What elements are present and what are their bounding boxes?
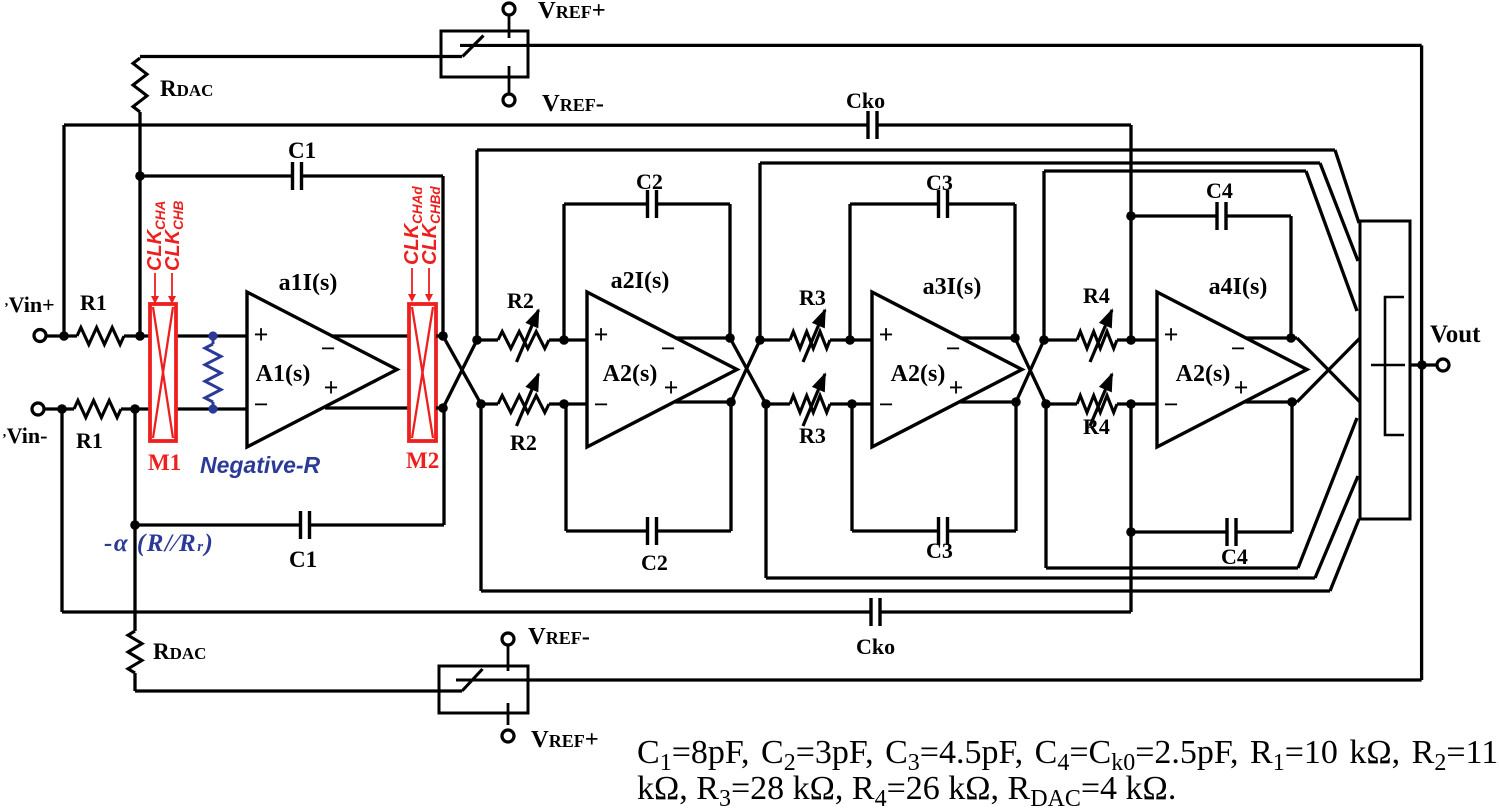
svg-text:’Vin+: ’Vin+ [4, 292, 55, 317]
svg-text:C1: C1 [289, 547, 317, 572]
svg-text:’Vin-: ’Vin- [2, 423, 47, 448]
svg-text:R3: R3 [799, 423, 826, 448]
svg-text:A2(s): A2(s) [603, 361, 658, 387]
svg-text:C3: C3 [926, 538, 953, 563]
svg-text:R3: R3 [799, 285, 826, 310]
svg-text:C3: C3 [926, 170, 953, 195]
svg-text:R2: R2 [507, 288, 534, 313]
svg-text:Cko: Cko [846, 88, 885, 113]
svg-text:C2: C2 [636, 169, 663, 194]
svg-text:C1: C1 [288, 138, 316, 163]
svg-text:a4I(s): a4I(s) [1209, 274, 1268, 300]
svg-text:+: + [949, 373, 964, 402]
svg-text:Vout: Vout [1430, 321, 1481, 348]
svg-text:+: + [324, 373, 339, 402]
svg-text:+: + [1164, 320, 1179, 349]
svg-text:A2(s): A2(s) [1176, 361, 1231, 387]
svg-text:a3I(s): a3I(s) [923, 274, 982, 300]
svg-text:−: − [946, 334, 961, 363]
svg-text:+: + [664, 373, 679, 402]
svg-text:C4: C4 [1206, 178, 1233, 203]
svg-text:VREF-: VREF- [542, 90, 604, 117]
svg-text:+: + [1234, 373, 1249, 402]
svg-text:C4: C4 [1221, 544, 1248, 569]
svg-text:−: − [594, 390, 609, 419]
svg-text:R4: R4 [1083, 414, 1110, 439]
svg-text:+: + [254, 320, 269, 349]
svg-text:−: − [1164, 390, 1179, 419]
svg-text:C2: C2 [641, 550, 668, 575]
svg-text:R2: R2 [510, 430, 537, 455]
svg-text:a1I(s): a1I(s) [279, 270, 338, 296]
svg-text:+: + [594, 320, 609, 349]
svg-text:VREF+: VREF+ [531, 726, 599, 753]
svg-text:−: − [661, 334, 676, 363]
svg-text:R4: R4 [1083, 283, 1110, 308]
svg-text:M1: M1 [148, 450, 181, 475]
svg-text:a2I(s): a2I(s) [611, 268, 670, 294]
svg-text:R1: R1 [76, 428, 103, 453]
svg-text:Cko: Cko [856, 634, 895, 659]
svg-text:VREF+: VREF+ [538, 0, 606, 24]
svg-text:Negative-R: Negative-R [200, 452, 321, 478]
svg-text:A1(s): A1(s) [256, 361, 311, 387]
svg-text:−: − [879, 390, 894, 419]
svg-text:−: − [321, 334, 336, 363]
svg-text:A2(s): A2(s) [891, 361, 946, 387]
svg-text:M2: M2 [406, 448, 439, 473]
svg-text:R1: R1 [80, 290, 107, 315]
svg-text:−: − [1231, 334, 1246, 363]
svg-text:−: − [254, 390, 269, 419]
svg-text:+: + [879, 320, 894, 349]
svg-text:kΩ, R3=28 kΩ, R4=26 kΩ, RDAC=4: kΩ, R3=28 kΩ, R4=26 kΩ, RDAC=4 kΩ. [637, 770, 1176, 806]
svg-text:VREF-: VREF- [528, 623, 590, 650]
